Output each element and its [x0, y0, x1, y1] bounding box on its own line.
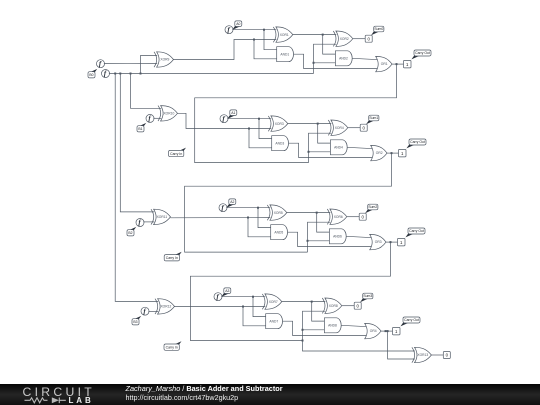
svg-text:Carry In: Carry In [166, 256, 178, 260]
svg-text:Carry Out: Carry Out [404, 318, 419, 322]
wire XOR5 to AND6 [317, 213, 330, 233]
indicator carry stage0 value 1 [404, 60, 412, 68]
svg-text:A1: A1 [231, 111, 235, 115]
flag Carry Out stage3 [400, 317, 420, 326]
wire control drop to XOR11 [120, 74, 154, 212]
svg-text:Carry Out: Carry Out [410, 140, 425, 144]
junction carry out stage0 [396, 63, 398, 65]
junction carry out stage3 [385, 330, 387, 332]
flag Sum2 [365, 204, 378, 213]
wire XOR9 top input stub [141, 56, 158, 74]
wire AND2 to OR1 [352, 58, 379, 59]
junction B row stage3 [242, 306, 244, 308]
indicator Sum0 value 0 [365, 35, 372, 42]
wire XOR7 output [282, 301, 326, 303]
flag Carry In stage3 [164, 341, 182, 350]
wire carry stage0 to stage1 [195, 64, 397, 163]
junction XOR1 output [322, 34, 324, 36]
junction B row stage2 [247, 217, 249, 219]
junction riser to AND4 [308, 151, 310, 153]
wire OR4 to carry indicator [381, 330, 393, 332]
or gate OR2 [371, 145, 387, 160]
svg-text:OR4: OR4 [370, 329, 377, 333]
svg-text:Carry Out: Carry Out [415, 51, 430, 55]
flag B1 [137, 123, 146, 132]
input source f (B3) [141, 307, 149, 315]
junction A3 row [252, 296, 254, 298]
wire A3 to AND7 [253, 297, 266, 317]
wire A0 to AND1 [264, 30, 277, 50]
wire B2 to XOR11 [143, 221, 154, 223]
svg-text:OR1: OR1 [381, 62, 388, 66]
and gate AND3 [272, 136, 289, 151]
wire XOR3 to AND4 [318, 124, 331, 144]
wire XOR1 output [293, 34, 337, 36]
wire A2 to AND5 [258, 208, 271, 228]
flag Carry Out stage2 [405, 228, 425, 237]
xor gate XOR13 [412, 347, 432, 362]
xor gate XOR1 [273, 27, 293, 42]
xor gate XOR3 [268, 116, 288, 131]
svg-text:XOR12: XOR12 [160, 305, 171, 309]
wire control drop to XOR12 [115, 74, 158, 302]
xor gate XOR7 [262, 294, 282, 309]
flag A1 [227, 110, 237, 119]
indicator Sum3 value 0 [354, 302, 361, 309]
wire XOR2 to sum indicator [353, 38, 365, 40]
wire OR1 to carry indicator [392, 63, 404, 65]
wire OR3 to carry indicator [386, 241, 398, 243]
svg-text:Sum2: Sum2 [368, 205, 377, 209]
svg-text:B2: B2 [128, 231, 132, 235]
svg-text:AND4: AND4 [334, 146, 343, 150]
svg-text:XOR5: XOR5 [274, 211, 283, 215]
wire XOR9 output [174, 40, 277, 60]
indicator Sum1 value 0 [360, 124, 367, 131]
flag Sum3 [360, 293, 373, 302]
svg-text:Carry In: Carry In [166, 345, 178, 349]
and gate AND6 [329, 229, 346, 244]
junction carry out stage2 [390, 241, 392, 243]
svg-text:XOR13: XOR13 [417, 353, 428, 357]
wire carry-in to AND2 [314, 62, 336, 64]
or gate OR4 [365, 323, 381, 338]
svg-text:AND6: AND6 [333, 235, 342, 239]
wire A1 row [227, 118, 271, 120]
flag B3 [132, 316, 141, 325]
wire carry stage2 to stage3 [190, 242, 390, 340]
footer bar [0, 384, 540, 405]
junction control bus x=120 [119, 73, 121, 75]
xor gate XOR12 [155, 299, 175, 314]
svg-text:OR2: OR2 [376, 151, 383, 155]
svg-text:B0: B0 [89, 73, 93, 77]
svg-text:Sum0: Sum0 [374, 27, 383, 31]
and gate AND1 [277, 47, 294, 62]
svg-text:AND1: AND1 [280, 52, 289, 56]
svg-text:AND3: AND3 [275, 141, 284, 145]
junction control bus x=115 [114, 73, 116, 75]
wire OR4 carry to XOR13 [388, 331, 415, 359]
indicator carry stage1 value 1 [399, 149, 407, 157]
CircuitLab logo resistor-diode squiggle [25, 398, 66, 404]
flag Carry In stage1 [169, 148, 187, 157]
or gate OR3 [370, 234, 386, 249]
flag A2 [226, 199, 236, 208]
wire carry-in riser stage0 [314, 44, 337, 73]
junction A1 row [258, 118, 260, 120]
wire carry-in riser stage2 [308, 222, 331, 252]
input source f (B1) [146, 114, 154, 122]
or gate OR1 [376, 56, 392, 71]
flag A3 [221, 288, 231, 297]
svg-text:XOR7: XOR7 [269, 300, 278, 304]
wire AND4 to OR2 [347, 147, 374, 148]
svg-text:AND5: AND5 [274, 230, 283, 234]
wire XOR7 to AND8 [312, 302, 325, 322]
wire B3 to XOR12 [148, 310, 158, 312]
wire XOR1 to AND2 [323, 35, 336, 55]
xor gate XOR9 [154, 52, 174, 67]
junction XOR3 output [317, 123, 319, 125]
wire AND8 to OR4 [341, 325, 368, 326]
wire AND1 to OR1 [294, 54, 379, 68]
xor gate XOR4 [328, 120, 348, 135]
wire B0 to XOR9 [104, 63, 157, 65]
input source f (subtract control) [102, 70, 110, 78]
wire AND7 to OR4 [283, 321, 368, 335]
xor gate XOR11 [151, 209, 171, 224]
wire XOR6 to sum indicator [347, 216, 359, 218]
indicator carry stage2 value 1 [398, 238, 406, 246]
and gate AND5 [271, 225, 288, 240]
junction XOR9 stub on bus [140, 73, 142, 75]
wire carry-in riser stage1 [309, 133, 332, 162]
svg-text:Sum1: Sum1 [369, 116, 378, 120]
wire XOR12 output [175, 306, 266, 308]
flag Carry In stage2 [164, 252, 182, 261]
junction B row stage0 [253, 39, 255, 41]
wire B to AND1 [254, 40, 277, 59]
wire carry stage1 to stage2 [185, 153, 392, 252]
flag Sum1 [366, 115, 379, 124]
xor gate XOR8 [322, 298, 342, 313]
input source f (B0) [97, 60, 105, 68]
wire B to AND5 [248, 218, 271, 237]
and gate AND8 [324, 318, 341, 333]
svg-text:XOR4: XOR4 [335, 126, 344, 130]
xor gate XOR10 [158, 106, 178, 121]
indicator overflow value 0 [443, 352, 450, 359]
flag Carry Out stage0 [411, 50, 431, 59]
wire XOR4 to sum indicator [348, 127, 360, 129]
wire XOR10 output [178, 113, 272, 128]
svg-text:Sum3: Sum3 [363, 294, 372, 298]
wire OR2 to carry indicator [387, 152, 399, 154]
indicator carry stage3 value 1 [393, 327, 401, 335]
junction riser to AND8 [302, 329, 304, 331]
junction control bus x=130 [130, 73, 132, 75]
wire control drop to XOR10 [131, 74, 162, 109]
flag A0 [232, 21, 242, 30]
wire stage3 carry-in to XOR13 [303, 341, 415, 352]
svg-text:AND7: AND7 [269, 319, 278, 323]
junction A0 row [263, 29, 265, 31]
wire carry-in riser stage3 [303, 311, 326, 340]
junction carry out stage1 [391, 152, 393, 154]
svg-text:XOR1: XOR1 [280, 33, 289, 37]
svg-text:A3: A3 [225, 289, 229, 293]
input source f (A1) [220, 115, 228, 123]
wire AND3 to OR2 [289, 143, 374, 157]
svg-text:AND8: AND8 [328, 323, 337, 327]
svg-text:OR3: OR3 [375, 240, 382, 244]
svg-text:Carry Out: Carry Out [409, 229, 424, 233]
junction stage3 bus to XOR13 [302, 340, 304, 342]
junction XOR5 output [316, 212, 318, 214]
svg-text:XOR3: XOR3 [275, 122, 284, 126]
svg-text:XOR10: XOR10 [163, 112, 174, 116]
wire carry-in to AND6 [308, 240, 330, 242]
input source f (B2) [136, 219, 144, 227]
flag Carry Out stage1 [406, 139, 426, 148]
wire AND6 to OR3 [346, 236, 373, 237]
junction OR4 output to XOR13 [387, 330, 389, 332]
flag B2 [127, 227, 136, 236]
wire XOR5 output [287, 212, 331, 214]
svg-text:A0: A0 [236, 22, 240, 26]
wire AND5 to OR3 [288, 232, 373, 246]
flag Sum0 [371, 26, 384, 35]
junction riser to AND2 [313, 62, 315, 64]
svg-text:XOR2: XOR2 [340, 37, 349, 41]
svg-text:B3: B3 [133, 320, 137, 324]
svg-text:XOR9: XOR9 [160, 58, 169, 62]
junction riser to AND6 [307, 240, 309, 242]
and gate AND7 [266, 314, 283, 329]
input source f (A3) [214, 293, 222, 301]
svg-text:AND2: AND2 [339, 56, 348, 60]
svg-text:A2: A2 [230, 200, 234, 204]
svg-text:Carry In: Carry In [170, 152, 182, 156]
wire carry-in to AND4 [309, 151, 331, 153]
wire B to AND3 [249, 129, 272, 148]
and gate AND2 [335, 51, 352, 66]
svg-text:http://circuitlab.com/crt47bw2: http://circuitlab.com/crt47bw2gku2p [126, 393, 239, 402]
wire carry-in to AND8 [303, 329, 325, 331]
svg-text:XOR8: XOR8 [329, 304, 338, 308]
input source f (A0) [225, 26, 233, 34]
wire XOR11 output [171, 217, 271, 219]
wire A3 row [221, 296, 265, 298]
svg-text:XOR11: XOR11 [157, 215, 168, 219]
wire XOR13 to indicator [431, 354, 443, 356]
junction A2 row [257, 207, 259, 209]
wire B to AND7 [243, 307, 266, 326]
svg-text:B1: B1 [138, 127, 142, 131]
wire XOR8 to sum indicator [342, 305, 354, 307]
and gate AND4 [330, 140, 347, 155]
flag B0 [88, 69, 97, 78]
wire B1 to XOR10 [153, 117, 161, 119]
junction XOR7 output [311, 301, 313, 303]
wire A2 row [226, 207, 270, 209]
svg-text:LAB: LAB [69, 396, 94, 405]
svg-text:XOR6: XOR6 [334, 215, 343, 219]
indicator Sum2 value 0 [359, 213, 366, 220]
xor gate XOR5 [267, 205, 287, 220]
wire A1 to AND3 [259, 119, 272, 139]
junction B row stage1 [248, 128, 250, 130]
wire subtract bus [109, 73, 314, 75]
xor gate XOR6 [327, 209, 347, 224]
input source f (A2) [219, 204, 227, 212]
xor gate XOR2 [333, 31, 353, 46]
wire A0 row [232, 29, 276, 31]
wire XOR3 output [288, 123, 332, 125]
